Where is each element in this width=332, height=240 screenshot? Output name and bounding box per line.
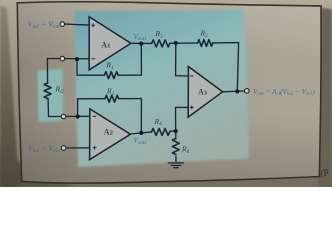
wire R4 to junction <box>170 130 176 132</box>
terminal circle input1 <box>60 22 65 27</box>
terminal circle output <box>245 89 250 94</box>
wire R6 to ground <box>175 157 177 163</box>
op-amp A2 <box>90 109 131 160</box>
teal highlight small (RG) <box>38 69 64 122</box>
junction dot A1 output <box>139 42 143 46</box>
dark page-edge strip at left <box>0 6 19 187</box>
wire junction to A3 - input <box>176 43 189 76</box>
light strip above frame <box>0 0 332 7</box>
resistor R2 <box>105 95 119 102</box>
A3 plus sign <box>190 106 194 110</box>
wire junction to R6 <box>175 131 177 138</box>
terminal circle input2 <box>61 146 66 151</box>
svg-text:A2: A2 <box>104 127 114 136</box>
A1 minus sign <box>92 58 96 60</box>
wire input2 to A2 + <box>66 147 90 149</box>
svg-text:(P: (P <box>320 168 328 179</box>
wire junction to A3 + input <box>176 107 189 131</box>
wire R5 to A3 output node <box>213 43 239 92</box>
resistor R3 <box>152 40 170 47</box>
junction dot A1 minus node <box>75 57 79 61</box>
teal highlight large <box>74 10 249 167</box>
ground <box>168 163 183 168</box>
resistor R1 <box>104 72 118 79</box>
junction dot A2 output <box>139 131 143 135</box>
wire A3 output <box>223 90 245 93</box>
junction dot A2 minus node <box>76 114 80 118</box>
A2 plus sign <box>93 146 97 150</box>
junction dot R3-R5 node <box>174 41 178 45</box>
wire A1 - input row <box>47 58 89 60</box>
dark page-edge strip at right <box>319 8 332 187</box>
wire RG to A2 - row <box>47 99 49 117</box>
wire A1 feedback left vertical <box>77 59 104 75</box>
wire R2 to A2 output <box>119 99 142 133</box>
wire A2 - input row <box>49 115 93 117</box>
wire R1 to A1 output <box>118 44 141 75</box>
page background <box>0 0 332 187</box>
figure frame border <box>17 2 321 183</box>
wire R3 to R5 <box>170 42 198 44</box>
op-amp A3 <box>188 67 222 118</box>
A3 minus sign <box>190 75 194 77</box>
resistor R6 <box>172 139 179 155</box>
resistor R5 <box>198 40 213 47</box>
wire A2 output row <box>130 132 151 134</box>
darker zone below figure frame <box>0 176 332 188</box>
terminal circle A1 minus <box>60 56 65 61</box>
junction dot R4-R6 node <box>174 129 178 133</box>
op-amp A1 <box>89 17 131 70</box>
A1 plus sign <box>91 23 95 27</box>
figure interior <box>17 2 321 183</box>
wire A2 feedback left vertical <box>78 99 105 117</box>
svg-text:A3: A3 <box>198 87 208 96</box>
terminal circle A2 minus <box>61 114 66 119</box>
wire A1 output row <box>131 42 152 44</box>
junction dot A3 output <box>235 89 239 93</box>
wire RG branch vertical <box>46 59 48 84</box>
resistor RG <box>44 83 51 99</box>
resistor R4 <box>152 128 170 135</box>
A2 minus sign <box>93 115 97 117</box>
wire input1 to A1 + <box>65 24 90 25</box>
svg-text:A1: A1 <box>101 40 110 49</box>
